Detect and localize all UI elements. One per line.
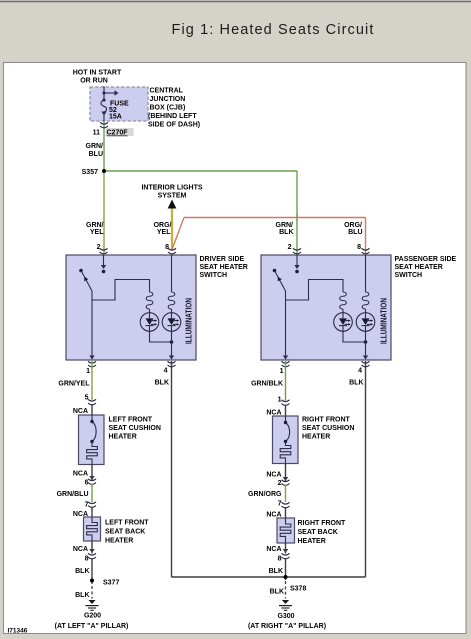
svg-text:1: 1 (86, 368, 90, 375)
passenger switch lever (273, 269, 286, 291)
svg-text:HEATER: HEATER (105, 538, 133, 545)
svg-text:(AT RIGHT "A" PILLAR): (AT RIGHT "A" PILLAR) (248, 623, 326, 630)
passenger pin 2 internal wire (294, 255, 299, 273)
passenger pin 8 internal wire (365, 255, 367, 292)
wire into back heater (91, 507, 93, 518)
svg-text:4: 4 (358, 368, 362, 375)
cushion heater exit arrow (89, 476, 94, 480)
fuse exit arrow (101, 112, 106, 116)
connector passenger pin 1 (282, 361, 290, 367)
wire resistor to LED 1 passenger (342, 309, 344, 313)
connector pin 7 right (282, 502, 290, 508)
svg-text:4: 4 (164, 368, 168, 375)
heater element cushion right (280, 445, 291, 459)
wire into right cushion heater (285, 405, 287, 417)
connector pin 8 right (282, 553, 290, 559)
node thermostat bottom (90, 440, 93, 443)
passenger internal branch wire (286, 280, 344, 301)
svg-text:5: 5 (85, 395, 89, 402)
branch feed arrow (104, 90, 119, 95)
label GRN/YEL above driver pin 2 (86, 222, 104, 236)
connector driver pin 1 (88, 361, 96, 367)
right cushion exit arrow (283, 477, 288, 481)
heater element back left (87, 517, 98, 541)
svg-text:S377: S377 (103, 580, 119, 587)
wire LED 1 to common passenger (343, 331, 366, 342)
connector pin 7 (88, 502, 96, 508)
svg-text:GRN/: GRN/ (86, 222, 104, 229)
LED passenger 1 (334, 313, 353, 332)
resistor passenger illumination 1 (340, 292, 347, 309)
svg-text:ORG/: ORG/ (154, 222, 172, 229)
connector passenger pin 8 (362, 248, 370, 254)
svg-text:2: 2 (288, 244, 292, 251)
wire LED 2 to pin 4 (171, 331, 173, 359)
driver pin 1 exit arrow (89, 356, 94, 360)
wire element to box bottom right (285, 459, 287, 464)
ground G200 (86, 600, 99, 610)
svg-text:RIGHT FRONT: RIGHT FRONT (298, 520, 347, 527)
svg-text:BLK: BLK (155, 380, 169, 387)
label LEFT FRONT SEAT BACK HEATER (105, 520, 149, 545)
left front seat cushion heater box (79, 415, 105, 465)
wire BLK to S377 (91, 558, 93, 584)
wire right back heater to connector 8 (285, 543, 287, 554)
node thermostat top right (284, 421, 287, 424)
wire ORG/BLU branch diagonal (172, 218, 184, 250)
svg-text:SWITCH: SWITCH (395, 272, 423, 279)
label INTERIOR LIGHTS SYSTEM (141, 185, 202, 200)
wire BLK to ground bus (285, 558, 287, 580)
svg-text:BLU: BLU (348, 229, 362, 236)
resistor driver illumination 2 (168, 292, 175, 309)
LED driver 1 (140, 313, 159, 332)
svg-text:SEAT CUSHION: SEAT CUSHION (109, 425, 161, 432)
svg-text:GRN/BLK: GRN/BLK (251, 381, 283, 388)
svg-text:11: 11 (93, 130, 101, 137)
wire resistor 2 to LED 2 (171, 309, 173, 313)
svg-text:BLK: BLK (75, 568, 89, 575)
connector pin 2 right (282, 480, 290, 486)
svg-text:BOX (CJB): BOX (CJB) (150, 105, 186, 112)
wire BLK ground bus horizontal (172, 576, 366, 578)
svg-text:SIDE OF DASH): SIDE OF DASH) (148, 122, 200, 129)
svg-text:ORG/: ORG/ (344, 222, 362, 229)
svg-text:S378: S378 (290, 586, 306, 593)
top edge line (0, 1, 471, 3)
thermostat arc (92, 422, 96, 442)
passenger side seat heater switch box (261, 255, 391, 360)
svg-text:SEAT HEATER: SEAT HEATER (200, 264, 248, 271)
node thermostat top (90, 420, 93, 423)
svg-text:HEATER: HEATER (109, 434, 137, 441)
label GRN/BLK above passenger pin 2 (276, 222, 294, 236)
driver internal branch wire (92, 280, 150, 301)
wire ORG/YEL driver pin 8 to interior lights arrow (171, 208, 173, 250)
node fuse top (102, 98, 105, 101)
svg-text:SEAT BACK: SEAT BACK (105, 529, 145, 536)
svg-text:PASSENGER SIDE: PASSENGER SIDE (395, 256, 457, 263)
right back heater exit arrow (283, 549, 288, 553)
connector driver pin 4 (168, 361, 176, 367)
wire thermostat to element right (285, 442, 287, 445)
svg-text:BLK: BLK (269, 568, 283, 575)
svg-text:(BEHIND LEFT: (BEHIND LEFT (148, 113, 197, 120)
connector pin 1 right (282, 400, 290, 406)
wire fuse to box edge (103, 114, 105, 122)
wire GRN/ORG between connectors (285, 485, 287, 503)
svg-text:SEAT HEATER: SEAT HEATER (395, 264, 443, 271)
wire GRN/BLK passenger pin 1 to cushion heater (285, 361, 287, 401)
connector pin 6 (88, 479, 96, 485)
label RIGHT FRONT SEAT CUSHION HEATER (302, 417, 354, 441)
driver side seat heater switch box (66, 255, 196, 360)
svg-text:HOT IN START: HOT IN START (73, 70, 122, 77)
svg-text:SWITCH: SWITCH (200, 272, 228, 279)
svg-text:BLK: BLK (349, 380, 363, 387)
svg-text:SEAT CUSHION: SEAT CUSHION (302, 425, 354, 432)
svg-text:RIGHT FRONT: RIGHT FRONT (302, 417, 351, 424)
wire resistor 2 to LED 2 passenger (365, 309, 367, 313)
resistor passenger illumination 2 (362, 292, 369, 309)
heater element back right (280, 518, 291, 543)
left front seat back heater box (84, 517, 101, 541)
label GRN/BLU (86, 143, 104, 158)
dashed wire to ground (91, 586, 93, 599)
svg-text:7: 7 (85, 502, 89, 509)
wire BLK driver switch pin 4 down (171, 361, 173, 577)
svg-text:ILLUMINATION: ILLUMINATION (185, 298, 194, 344)
cushion heater internal wire top (91, 415, 93, 422)
wire BLK passenger switch pin 4 down (365, 361, 367, 577)
svg-text:DRIVER SIDE: DRIVER SIDE (200, 256, 245, 263)
svg-text:INTERIOR LIGHTS: INTERIOR LIGHTS (141, 185, 202, 192)
wire LED 1 to common (150, 331, 172, 342)
connector pin 8 (88, 553, 96, 559)
svg-text:S357: S357 (82, 169, 98, 176)
svg-text:NCA: NCA (266, 472, 281, 479)
right front seat back heater box (277, 518, 295, 543)
label PASSENGER SIDE SEAT HEATER SWITCH (395, 256, 457, 279)
right front seat cushion heater box (273, 416, 299, 464)
label CENTRAL JUNCTION BOX (148, 88, 200, 129)
node CJB junction (102, 91, 105, 94)
interior lights arrow (168, 200, 177, 209)
connector C270F (100, 122, 108, 128)
dashed wire to ground right (285, 581, 287, 599)
svg-text:BLK: BLK (75, 592, 89, 599)
svg-text:BLK: BLK (270, 589, 284, 596)
svg-text:YEL: YEL (90, 229, 104, 236)
svg-text:NCA: NCA (266, 546, 281, 553)
svg-text:LEFT FRONT: LEFT FRONT (105, 520, 149, 527)
thermostat arc right (286, 423, 290, 442)
wire ORG/BLU vertical to passenger pin 8 (365, 218, 367, 254)
svg-text:NCA: NCA (73, 471, 88, 478)
svg-text:SYSTEM: SYSTEM (158, 193, 187, 200)
back heater exit arrow (89, 549, 94, 553)
svg-text:I71346: I71346 (8, 628, 28, 635)
wire thermostat to element (91, 442, 93, 446)
svg-text:G300: G300 (277, 613, 294, 620)
label ORG/YEL above driver pin 8 (154, 222, 172, 236)
wire element to box bottom (91, 460, 93, 465)
svg-text:2: 2 (278, 480, 282, 487)
node S378 (284, 575, 288, 579)
label LEFT FRONT SEAT CUSHION HEATER (109, 417, 161, 441)
wire into right back heater (285, 507, 287, 518)
svg-text:CENTRAL: CENTRAL (150, 88, 184, 95)
label RIGHT FRONT SEAT BACK HEATER (298, 520, 347, 545)
svg-text:BLK: BLK (279, 229, 293, 236)
svg-text:1: 1 (278, 397, 282, 404)
driver pin 2 internal wire (101, 255, 106, 273)
passenger pin 1 exit arrow (283, 356, 288, 360)
svg-text:15A: 15A (109, 114, 122, 121)
wire GRN/BLU between connectors (91, 484, 93, 503)
svg-text:7: 7 (278, 501, 282, 508)
svg-text:GRN/: GRN/ (276, 222, 294, 229)
right cushion internal wire top (285, 416, 287, 423)
wire GRN/YEL driver pin 1 to cushion heater (91, 361, 93, 400)
connector passenger pin 2 (293, 248, 301, 254)
wire resistor to LED 1 (149, 309, 151, 313)
label ORG/BLU above passenger pin 8 (344, 222, 362, 236)
wire cushion to connector 6 (91, 465, 93, 481)
driver pin 8 internal wire (171, 255, 173, 292)
svg-text:NCA: NCA (73, 408, 88, 415)
connector driver pin 2 (100, 248, 108, 254)
svg-text:LEFT FRONT: LEFT FRONT (109, 417, 153, 424)
label DRIVER SIDE SEAT HEATER SWITCH (200, 256, 248, 279)
LED passenger 2 (356, 313, 375, 332)
svg-text:OR RUN: OR RUN (80, 78, 108, 85)
driver switch lever (79, 269, 92, 291)
passenger pin 4 exit arrow (363, 356, 368, 360)
resistor driver illumination 1 (146, 292, 153, 309)
wire GRN/BLK vertical to passenger switch pin 2 (296, 171, 298, 254)
svg-text:8: 8 (278, 556, 282, 563)
node S377 (90, 579, 94, 583)
connector driver pin 8 (168, 248, 176, 254)
wire back heater to connector 8 (91, 541, 93, 554)
svg-text:G200: G200 (84, 613, 101, 620)
svg-text:GRN/ORG: GRN/ORG (248, 491, 282, 498)
wire LED 2 to pin 4 passenger (365, 331, 367, 359)
connector passenger pin 4 (362, 361, 370, 367)
svg-text:HEATER: HEATER (302, 434, 330, 441)
svg-text:Fig 1: Heated Seats Circuit: Fig 1: Heated Seats Circuit (172, 22, 375, 38)
svg-text:BLU: BLU (89, 151, 103, 158)
svg-text:2: 2 (97, 244, 101, 251)
svg-text:8: 8 (357, 244, 361, 251)
svg-text:JUNCTION: JUNCTION (150, 96, 186, 103)
wire junction to fuse (103, 93, 105, 100)
svg-text:8: 8 (85, 556, 89, 563)
wire GRN/BLK S357 branch horizontal (104, 170, 297, 172)
wire ORG/BLU horizontal (184, 217, 366, 219)
svg-text:HEATER: HEATER (298, 538, 326, 545)
svg-text:GRN/BLU: GRN/BLU (57, 491, 89, 498)
svg-text:1: 1 (280, 368, 284, 375)
passenger switch output wire to pin 1 (285, 291, 287, 359)
node passenger LED common (364, 340, 368, 344)
svg-text:GRN/: GRN/ (86, 143, 104, 150)
svg-text:YEL: YEL (157, 229, 171, 236)
driver switch output wire to pin 1 (91, 291, 93, 359)
wire into cushion heater (91, 404, 93, 415)
svg-text:C270F: C270F (107, 130, 129, 137)
svg-text:(AT LEFT "A" PILLAR): (AT LEFT "A" PILLAR) (55, 623, 129, 630)
svg-text:SEAT BACK: SEAT BACK (298, 529, 338, 536)
svg-text:ILLUMINATION: ILLUMINATION (380, 298, 389, 344)
wire right cushion to connector 2 (285, 464, 287, 482)
heater element cushion left (87, 446, 98, 460)
connector pin 5 (88, 399, 96, 405)
wire stub into CJB (103, 86, 105, 93)
wire GRN/BLK overlay at orange crossing (296, 214, 298, 222)
svg-text:8: 8 (165, 244, 169, 251)
node thermostat bottom right (284, 440, 287, 443)
connector label C270F (106, 128, 134, 137)
svg-text:GRN/YEL: GRN/YEL (58, 381, 90, 388)
ground G300 (279, 600, 292, 610)
wire GRN/YEL S357 to driver switch pin 2 (103, 171, 105, 254)
wire GRN/BLU fuse to S357 (103, 122, 105, 172)
fuse F52 element (101, 100, 107, 112)
node driver LED common (170, 340, 174, 344)
LED driver 2 (162, 313, 181, 332)
node S357 (102, 169, 106, 173)
central junction box CJB (90, 87, 148, 121)
driver pin 4 exit arrow (169, 356, 174, 360)
svg-text:NCA: NCA (73, 546, 88, 553)
